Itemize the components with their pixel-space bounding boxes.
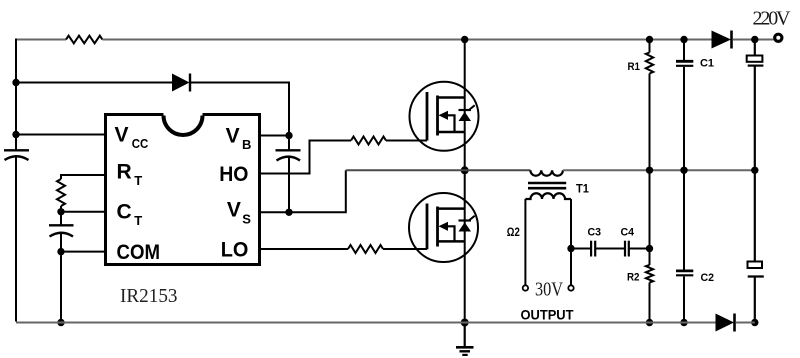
capacitor C2 <box>676 271 693 275</box>
svg-text:C1: C1 <box>700 58 714 70</box>
svg-text:220V: 220V <box>753 8 792 30</box>
wire right column to electrolytic 2 <box>754 170 756 261</box>
IC U1 IR2153 body <box>106 112 260 265</box>
terminal 220V <box>775 34 782 41</box>
pin label VS <box>227 199 251 227</box>
junction CT node <box>57 208 64 215</box>
junction R2 node <box>646 245 653 252</box>
wire RT pin <box>61 175 106 179</box>
junction COM node <box>57 248 64 255</box>
transformer T1 primary winding <box>530 170 563 175</box>
wire R2 column upper <box>649 170 651 265</box>
junction right column top rail <box>751 36 758 43</box>
junction on left vertical at diode branch <box>12 79 19 86</box>
junction VB node <box>285 132 292 139</box>
junction C2 bottom rail <box>680 319 687 326</box>
wire C2 bottom lead <box>683 277 685 323</box>
resistor (VCC dropper, top-left) <box>66 36 102 44</box>
terminal output right <box>568 285 573 290</box>
svg-text:B: B <box>242 137 251 152</box>
transformer T1 core <box>528 183 566 188</box>
wire midpoint rail to transformer <box>346 169 531 171</box>
resistor gate Q1 <box>351 137 386 145</box>
wire R1 bottom lead to midrail <box>649 74 651 171</box>
wire secondary right leg <box>570 199 572 285</box>
wire CT pin <box>61 211 106 213</box>
diode bootstrap <box>172 74 190 92</box>
wire cap to COM node <box>60 233 62 252</box>
wire HO pin <box>260 141 352 174</box>
svg-text:C3: C3 <box>588 227 602 239</box>
pin label VCC <box>115 124 149 152</box>
wire RT to CT node <box>60 206 62 212</box>
wire VB pin <box>260 135 290 137</box>
wire bootstrap diode anode <box>16 82 172 84</box>
wire top rail main <box>102 39 711 41</box>
wire half-bridge rail upper (drain Q1 to source Q1) <box>464 40 466 171</box>
svg-text:T1: T1 <box>576 182 589 196</box>
wire LO pin <box>260 248 349 250</box>
wire gate resistor to Q2 gate <box>383 248 427 250</box>
terminal output left <box>523 285 528 290</box>
junction right column bottom rail <box>751 319 758 326</box>
wire COM to bottom rail <box>60 252 62 323</box>
wire R2 bottom lead <box>649 283 651 323</box>
capacitor C1 <box>676 61 693 66</box>
wire half-bridge rail lower (drain Q2 to source Q2) <box>464 170 466 322</box>
ground <box>456 323 474 355</box>
svg-text:R: R <box>117 161 132 184</box>
wire bootstrap cap to VS wire <box>288 157 290 213</box>
diode D1 (top right) <box>712 31 732 49</box>
junction on VS wire <box>285 209 292 216</box>
transistor Q1 (high-side MOSFET) <box>410 82 479 151</box>
resistor R1 <box>646 53 653 74</box>
wire secondary left leg <box>524 199 526 285</box>
junction COM bottom rail <box>57 319 64 326</box>
transistor Q2 (low-side MOSFET) <box>409 193 478 262</box>
transformer T1 secondary winding <box>525 193 571 199</box>
junction on left vertical at VCC <box>12 131 19 138</box>
wire C1 bottom lead to midrail <box>683 67 685 170</box>
capacitor CT (timing, polarized) <box>49 225 74 236</box>
junction right column midrail <box>751 167 758 174</box>
wire CT node to cap <box>60 212 62 225</box>
capacitor bootstrap (polarized) <box>276 150 301 160</box>
svg-text:C2: C2 <box>701 272 715 284</box>
junction R2 bottom rail <box>646 319 653 326</box>
wire R1 top lead <box>649 40 651 53</box>
diode D2 (bottom right) <box>716 314 735 332</box>
svg-text:C: C <box>117 201 132 224</box>
pin label RT <box>117 161 143 189</box>
svg-text:S: S <box>242 212 251 227</box>
junction C1 top rail <box>680 36 687 43</box>
wire left vertical upper <box>15 39 17 151</box>
junction half-bridge midpoint <box>461 166 469 174</box>
junction R1 midrail <box>646 167 653 174</box>
capacitor C3 <box>591 241 595 257</box>
wire top rail right of D1 <box>733 39 775 41</box>
svg-text:COM: COM <box>117 241 161 264</box>
svg-text:T: T <box>134 173 142 188</box>
junction drain Q1 top rail <box>461 36 468 43</box>
wire C3 to C4 <box>595 248 625 250</box>
pin label VB <box>226 125 252 153</box>
wire VCC pin <box>16 134 106 136</box>
svg-text:CC: CC <box>132 136 149 151</box>
svg-text:C4: C4 <box>621 227 635 239</box>
wire bootstrap diode cathode to VB <box>191 83 289 136</box>
resistor gate Q2 <box>348 245 383 253</box>
wire C1 top lead <box>683 40 685 61</box>
wire gate resistor to Q1 gate <box>386 140 427 142</box>
svg-text:LO: LO <box>221 239 249 262</box>
svg-text:OUTPUT: OUTPUT <box>521 308 575 323</box>
junction C1 midrail <box>680 167 687 174</box>
wire left vertical lower <box>15 157 17 322</box>
capacitor (VCC filter, polarized) <box>4 150 29 160</box>
svg-text:30V: 30V <box>535 279 563 301</box>
resistor RT (timing) <box>57 179 65 206</box>
wire right column to electrolytic 1 <box>754 40 756 56</box>
capacitor electrolytic (bottom, box style) <box>748 262 764 277</box>
svg-text:T: T <box>134 213 142 228</box>
wire C4 to R2 node <box>629 248 650 250</box>
junction secondary right leg / C3 <box>567 245 574 252</box>
svg-text:Ω2: Ω2 <box>507 225 520 239</box>
wire bottom rail left segment <box>16 322 716 324</box>
resistor R2 <box>646 265 653 283</box>
svg-text:V: V <box>227 199 241 222</box>
wire C2 column upper <box>683 170 685 269</box>
wire VB node to bootstrap cap <box>288 136 290 151</box>
svg-text:R2: R2 <box>627 272 640 284</box>
junction source Q2 bottom rail <box>461 319 469 327</box>
pin label CT <box>117 201 143 229</box>
wire C3 left <box>571 248 591 250</box>
capacitor C4 <box>625 241 629 257</box>
capacitor electrolytic (top, box style) <box>747 56 764 66</box>
svg-text:V: V <box>115 124 129 147</box>
junction R1 top rail <box>646 36 653 43</box>
wire VS pin to midpoint rail <box>260 170 346 212</box>
wire COM pin <box>61 251 106 253</box>
svg-text:HO: HO <box>219 163 248 186</box>
wire electrolytic 1 to midrail <box>754 66 756 171</box>
svg-text:R1: R1 <box>628 61 641 73</box>
wire electrolytic 2 to bottom rail <box>754 277 756 323</box>
svg-text:V: V <box>226 125 240 148</box>
svg-text:IR2153: IR2153 <box>120 285 178 307</box>
wire bottom rail right of D2 <box>736 322 755 324</box>
wire top rail left segment <box>16 39 66 41</box>
wire midpoint rail right of transformer <box>563 169 755 171</box>
